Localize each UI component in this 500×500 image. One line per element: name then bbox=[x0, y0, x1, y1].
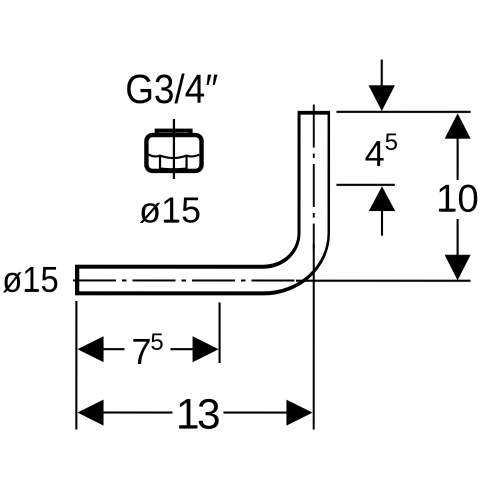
extension line vertical at 7.5 bbox=[219, 302, 221, 363]
extension line left vertical (pipe left end) bbox=[75, 301, 77, 430]
union nut cap bbox=[157, 131, 191, 136]
centerline horizontal dash-dot bbox=[73, 279, 300, 281]
svg-text:ø15: ø15 bbox=[2, 259, 59, 300]
dimension 4.5 top arrow (down) bbox=[369, 60, 395, 112]
extension line from horizontal pipe centerline right to 10 dimension bbox=[296, 280, 471, 282]
svg-text:ø15: ø15 bbox=[139, 189, 201, 230]
svg-text:10: 10 bbox=[436, 178, 479, 221]
svg-text:4: 4 bbox=[365, 133, 385, 174]
union nut chamfer scallops bbox=[149, 155, 200, 158]
dimension 4.5 bottom arrow (up) bbox=[369, 186, 395, 235]
svg-text:5: 5 bbox=[385, 129, 398, 156]
pipe elbow bore (white interior) bbox=[79, 115, 327, 292]
union nut body bbox=[146, 135, 201, 171]
dimension 7.5 left arrow bbox=[77, 336, 124, 362]
extension line middle (4.5 lower bound) bbox=[336, 184, 394, 186]
serif foot of digit 1 in label 10 bbox=[441, 209, 454, 212]
dimension 10 bottom arrow (down) bbox=[445, 219, 471, 280]
centerline vertical dash-dot bbox=[313, 105, 315, 250]
union nut face line right bbox=[185, 156, 187, 169]
union nut bottom chamfer arc bbox=[160, 167, 187, 170]
serif foot of digit 1 in nut label bbox=[165, 220, 178, 223]
dimension 7.5 right arrow bbox=[170, 336, 218, 362]
union nut centerline bbox=[173, 119, 175, 179]
svg-text:5: 5 bbox=[150, 329, 163, 356]
dimension 13 left arrow bbox=[77, 400, 172, 426]
extension line top (pipe top level) bbox=[336, 111, 470, 113]
svg-text:7: 7 bbox=[131, 331, 151, 372]
pipe elbow outer wall bbox=[75, 111, 330, 296]
svg-text:G3/4″: G3/4″ bbox=[125, 66, 218, 112]
union nut face line left bbox=[159, 156, 161, 169]
dimension 13 right arrow bbox=[223, 400, 312, 426]
svg-text:3: 3 bbox=[197, 391, 221, 438]
serif foot of digit 1 in pipe-end label bbox=[25, 289, 38, 292]
dimension 10 top arrow (up) bbox=[445, 113, 471, 180]
serif foot of digit 1 in label 13 bbox=[180, 426, 193, 429]
extension line from vertical pipe centerline down to 13 dimension bbox=[313, 244, 315, 430]
